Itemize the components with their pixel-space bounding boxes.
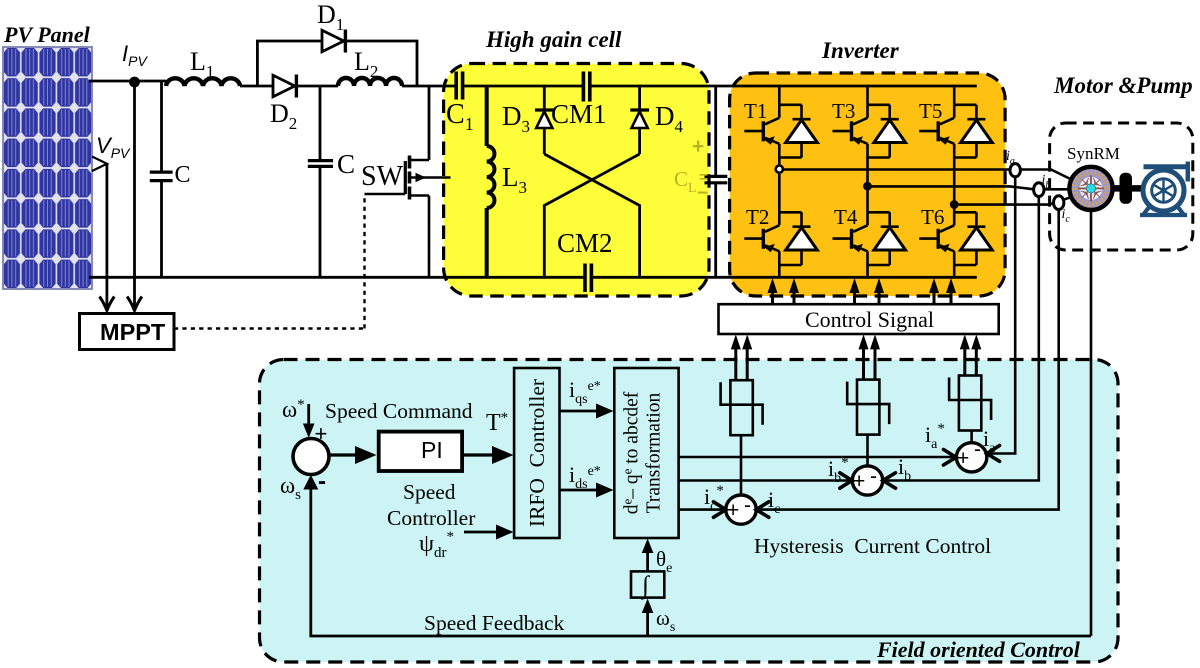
- box PI: [379, 432, 462, 471]
- wire leg C verticals: [953, 86, 956, 277]
- border motor and pump: [1050, 123, 1193, 250]
- diode D4 leads: [638, 86, 641, 154]
- inductor L3: [487, 86, 495, 277]
- wire phase C: [954, 197, 1072, 205]
- arrow hysteresis C out 1: [734, 347, 737, 379]
- svg-text:+: +: [692, 135, 704, 158]
- wire L2 to C1: [402, 85, 456, 88]
- svg-text:CM2: CM2: [557, 228, 613, 258]
- wire ia feedback: [990, 176, 1015, 453]
- wire ib feedback: [885, 197, 1039, 481]
- arrow gate drive leg A1: [771, 291, 774, 304]
- capacitor CM1 plates: [583, 72, 589, 102]
- summer A: [956, 443, 986, 472]
- hysteresis block C: [949, 376, 991, 431]
- svg-text:Control Signal: Control Signal: [805, 307, 934, 332]
- transistor T3: [833, 105, 906, 158]
- svg-text:T2: T2: [746, 205, 769, 229]
- svg-text:CM1: CM1: [551, 99, 607, 129]
- svg-text:T4: T4: [834, 205, 858, 229]
- arrow feedback into summing: [303, 475, 318, 490]
- svg-text:+: +: [727, 499, 739, 522]
- arrow PI to IRFO: [462, 446, 513, 464]
- capacitor C2 leads: [319, 86, 322, 277]
- svg-text:Transformation: Transformation: [644, 392, 665, 513]
- arrow hysteresis A out 2: [975, 347, 978, 376]
- arrow ic ref into summer C: [714, 502, 726, 518]
- svg-text:∫: ∫: [640, 572, 650, 600]
- svg-text:+: +: [957, 447, 969, 470]
- arrow ids to transformation: [560, 483, 614, 498]
- IPV sense line to MPPT: [127, 87, 142, 311]
- svg-text:-: -: [318, 468, 326, 495]
- arrow ib fb into summer B: [883, 473, 896, 488]
- summing junction speed: [293, 439, 329, 475]
- transformation outputs: [679, 431, 972, 510]
- diode D3: [535, 110, 554, 128]
- arrow psi dr input: [464, 525, 514, 540]
- box integrator: [631, 571, 664, 597]
- arrow gate drive leg B1: [853, 291, 856, 304]
- border field oriented control: [260, 360, 1119, 663]
- wire bottom bus right of CM2: [591, 276, 976, 279]
- capacitor C input leads: [160, 81, 163, 277]
- svg-text:−: −: [697, 183, 708, 204]
- arrow omega s to integrator: [642, 599, 654, 637]
- arrow gate drive leg C2: [950, 291, 953, 304]
- summer B: [852, 466, 882, 495]
- wire phase A: [783, 170, 1074, 181]
- arrow hysteresis B out 1: [862, 347, 865, 379]
- arrow ic fb into summer C: [756, 502, 769, 518]
- svg-text:C: C: [175, 162, 191, 188]
- svg-text:SynRM: SynRM: [1067, 144, 1120, 163]
- field oriented control region: [260, 360, 1119, 663]
- arrow gate drive leg B2: [878, 291, 881, 304]
- arrow hysteresis B out 2: [874, 347, 877, 379]
- transistor T4: [833, 212, 906, 265]
- arrow ib ref into summer B: [840, 473, 852, 488]
- sensor ic: [1054, 196, 1064, 210]
- svg-text:Speed Command: Speed Command: [325, 399, 473, 423]
- wire ic star: [679, 508, 723, 511]
- svg-text:ic: ic: [1062, 207, 1071, 225]
- wire CM1 to inverter top bus: [590, 85, 977, 88]
- hysteresis block B: [847, 380, 889, 435]
- wire pv bottom bus: [89, 276, 585, 279]
- svg-text:Inverter: Inverter: [821, 38, 900, 63]
- arrow theta e: [642, 539, 654, 572]
- wire pv top: [89, 80, 166, 83]
- capacitor C input plates: [150, 172, 173, 181]
- wire phase B: [868, 186, 1073, 189]
- node phase A: [776, 166, 783, 173]
- arrow ia fb into summer A: [987, 446, 1000, 462]
- svg-text:D2: D2: [270, 99, 297, 133]
- shaft coupling: [1113, 173, 1143, 204]
- transistor T6: [919, 212, 992, 265]
- sensor ia: [1010, 164, 1020, 177]
- svg-text:D1: D1: [317, 0, 344, 34]
- label transformation: [620, 391, 665, 514]
- wire D2 to L2: [298, 85, 338, 88]
- summer C: [726, 495, 756, 524]
- inductor L1: [166, 78, 240, 86]
- wire ib star: [679, 479, 850, 482]
- arrow ia ref into summer A: [944, 450, 957, 466]
- MPPT box: [80, 314, 175, 350]
- svg-text:IRFO Controller: IRFO Controller: [525, 379, 549, 527]
- svg-text:Controller: Controller: [387, 506, 475, 530]
- VPV probe and sense line: [92, 157, 114, 311]
- capacitor CM2 plates: [585, 264, 591, 293]
- wire ic feedback: [758, 210, 1059, 510]
- diode D2: [273, 75, 296, 98]
- svg-text:PI: PI: [421, 437, 443, 463]
- box transformation: [614, 368, 678, 538]
- wire D1 branch up: [257, 41, 417, 86]
- high gain cell region: [444, 64, 709, 297]
- svg-text:T3: T3: [832, 99, 855, 123]
- svg-text:IPV: IPV: [122, 41, 148, 69]
- svg-text:+: +: [853, 470, 865, 493]
- svg-text:+: +: [315, 421, 328, 446]
- MOSFET SW: [365, 156, 451, 278]
- wire speed feedback: [311, 485, 1091, 636]
- PV panel: [3, 47, 92, 289]
- arrow gate drive leg C1: [933, 291, 936, 304]
- arrow iqs to transformation: [560, 404, 614, 419]
- svg-text:Speed: Speed: [403, 480, 456, 504]
- inverter region: [730, 73, 1006, 296]
- svg-text:MPPT: MPPT: [100, 319, 166, 345]
- wire summer A to hysteresis: [970, 431, 973, 443]
- capacitor C2 plates: [308, 161, 333, 167]
- svg-text:Speed Feedback: Speed Feedback: [424, 611, 565, 635]
- wire L1 to D2: [240, 85, 273, 88]
- svg-text:PV Panel: PV Panel: [3, 22, 91, 47]
- pump: [1140, 162, 1188, 216]
- diode D4: [630, 110, 649, 128]
- svg-text:-: -: [974, 438, 981, 461]
- control signal box: [719, 304, 999, 334]
- MPPT dashed control line: [174, 194, 365, 329]
- transistor T1: [744, 105, 817, 158]
- transistor T5: [919, 105, 992, 158]
- box IRFO controller: [514, 368, 559, 538]
- wire motor speed feedback: [1090, 210, 1093, 636]
- svg-text:C: C: [337, 149, 355, 179]
- inductor L2: [338, 78, 402, 86]
- svg-text:VPV: VPV: [96, 133, 131, 161]
- sensor ib: [1034, 183, 1044, 197]
- wire ia star: [679, 456, 953, 459]
- wire leg B verticals: [866, 86, 869, 277]
- arrow gate drive leg A2: [793, 291, 796, 304]
- motor SynRM: [1069, 167, 1112, 210]
- svg-text:-: -: [744, 494, 751, 517]
- wire SW drain branch: [428, 86, 431, 160]
- arrow speed command input: [303, 404, 315, 438]
- arrow summing to PI: [329, 446, 377, 464]
- arrow hysteresis C out 2: [746, 347, 749, 379]
- hysteresis block A: [721, 380, 763, 435]
- wire summer C to hysteresis: [740, 435, 743, 495]
- svg-text:SW: SW: [361, 161, 404, 192]
- diode D1: [322, 30, 345, 53]
- svg-text:-: -: [870, 465, 877, 488]
- svg-text:T1: T1: [744, 99, 767, 123]
- arrow hysteresis A out 1: [963, 347, 966, 376]
- svg-text:de– qe to abcdef: de– qe to abcdef: [620, 391, 643, 514]
- wire summer B to hysteresis: [866, 435, 869, 466]
- wire leg A verticals: [778, 86, 781, 277]
- svg-text:ia: ia: [1006, 149, 1015, 167]
- node IPV junction dot: [129, 77, 140, 88]
- svg-text:T6: T6: [921, 205, 944, 229]
- svg-text:High gain cell: High gain cell: [485, 27, 622, 52]
- capacitor CL dc link: [714, 86, 717, 277]
- svg-text:Motor &Pump: Motor &Pump: [1053, 73, 1193, 98]
- svg-text:T5: T5: [919, 99, 942, 123]
- border high gain cell: [444, 64, 709, 297]
- wire C1 to CM1: [463, 85, 584, 88]
- node phase C: [950, 200, 959, 209]
- svg-text:Hysteresis Current Control: Hysteresis Current Control: [754, 534, 991, 558]
- wire cross diagonals: [544, 154, 639, 277]
- transistor T2: [744, 212, 817, 265]
- svg-text:L1: L1: [190, 47, 214, 81]
- node phase B: [863, 182, 872, 191]
- capacitor C1 plates: [456, 72, 462, 100]
- diode D3 leads: [543, 86, 546, 154]
- svg-text:L2: L2: [354, 47, 378, 81]
- svg-text:Field oriented Control: Field oriented Control: [876, 637, 1081, 662]
- border inverter: [730, 73, 1006, 296]
